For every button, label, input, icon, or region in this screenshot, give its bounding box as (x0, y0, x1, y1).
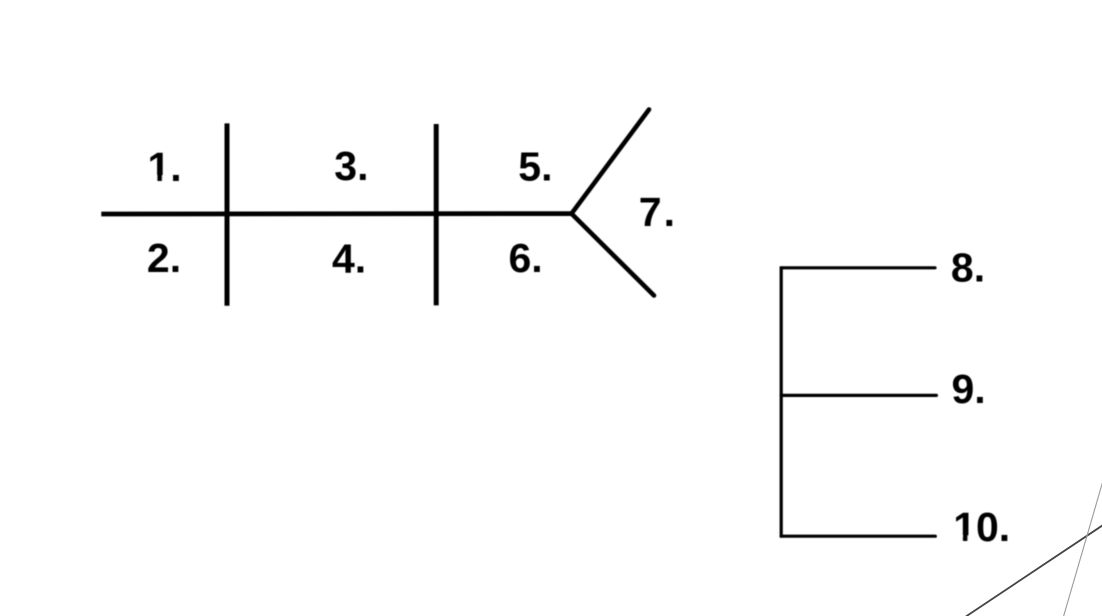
wire: bracket top horizontal (781, 266, 935, 269)
wire: lower fork branch (572, 214, 655, 296)
wire: bracket vertical (780, 266, 783, 537)
svg-text:10.: 10. (953, 504, 1010, 550)
wire: first vertical crossbar (225, 123, 230, 305)
wire: upper fork branch (572, 110, 650, 214)
svg-text:5.: 5. (518, 144, 552, 190)
wire: second vertical crossbar (434, 124, 439, 305)
svg-text:2.: 2. (147, 235, 181, 281)
wire: bracket bottom horizontal (781, 535, 935, 538)
svg-text:3.: 3. (334, 143, 368, 189)
white mask removing foot serif of digit 1 in label 10 (953, 536, 963, 543)
svg-text:6.: 6. (509, 235, 543, 281)
wire: faint light diagonal in bottom-right corner (1064, 483, 1102, 616)
wire: faint dark diagonal in bottom-right corner (966, 525, 1102, 616)
wire: bracket middle horizontal (781, 394, 936, 397)
svg-text:4.: 4. (332, 235, 366, 281)
svg-text:9.: 9. (952, 366, 986, 412)
svg-text:1.: 1. (148, 144, 182, 190)
wire: main horizontal spine (101, 211, 572, 216)
svg-text:7.: 7. (639, 189, 675, 235)
white mask removing foot serif of digit 1 (147, 176, 157, 183)
svg-text:8.: 8. (951, 245, 985, 291)
